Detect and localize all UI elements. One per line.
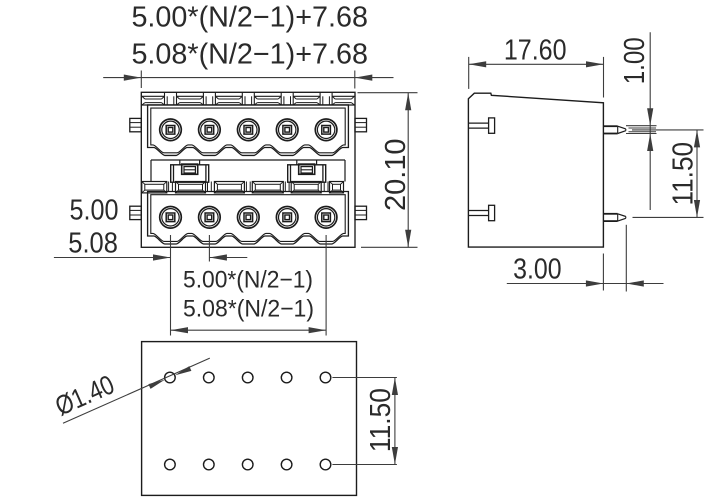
pitch label 5.00 <box>70 194 119 226</box>
svg-text:5.00: 5.00 <box>70 194 119 226</box>
pcb layout rectangle <box>142 342 357 496</box>
bevel panel 1 <box>142 182 167 193</box>
side view body outline <box>468 93 603 247</box>
screw terminal A2 (top row) <box>199 119 221 141</box>
pin pitch dimension line <box>54 235 326 336</box>
bevel panel 6 <box>330 182 344 193</box>
solder pin upper <box>603 126 625 133</box>
svg-text:5.00*(N/2−1)+7.68: 5.00*(N/2−1)+7.68 <box>131 1 368 33</box>
dimension 1.00 <box>619 32 656 210</box>
side view mounting tab upper <box>468 118 494 133</box>
left mounting tab upper <box>130 118 142 131</box>
screw terminal A3 (top row) <box>238 119 260 141</box>
bevel panel 5 <box>291 182 321 193</box>
screw terminal B2 (bottom row) <box>199 207 221 229</box>
pcb hole bottom row 3 <box>242 459 253 470</box>
bevel panel 4 <box>252 182 283 193</box>
front view outer housing box <box>141 92 355 247</box>
svg-text:5.08: 5.08 <box>68 227 118 259</box>
svg-text:5.00*(N/2−1): 5.00*(N/2−1) <box>183 267 313 294</box>
height dimension 20.10 <box>358 93 418 248</box>
pcb hole bottom row 4 <box>281 459 292 470</box>
dimension 17.60 <box>469 34 604 97</box>
dimension text 5.08*(N/2-1)+7.68 <box>131 38 368 70</box>
pcb hole bottom row 1 <box>165 459 176 470</box>
svg-text:11.50: 11.50 <box>668 142 700 206</box>
pcb hole top row 3 <box>242 372 253 383</box>
screw terminal A1 (top row) <box>160 119 182 141</box>
lower housing outline with scalloped bottom <box>148 192 349 245</box>
row span dimension line <box>171 327 327 333</box>
overall width dimension line <box>103 71 393 89</box>
bevel panel 2 <box>176 182 206 193</box>
pcb hole top row 2 <box>204 372 215 383</box>
hole diameter leader <box>51 358 210 423</box>
svg-text:1.00: 1.00 <box>619 37 651 84</box>
slot lines between bevel panels <box>169 182 328 192</box>
pcb hole top row 4 <box>281 372 292 383</box>
pcb hole top row 1 <box>165 372 176 383</box>
dimension 11.50 side view <box>632 130 704 218</box>
svg-text:3.00: 3.00 <box>513 254 562 286</box>
upper housing outline with scalloped bottom <box>148 105 349 155</box>
right mounting tab upper <box>355 118 367 131</box>
pitch label 5.08 <box>68 227 118 259</box>
dimension 3.00 <box>507 225 664 292</box>
screw terminal B4 (bottom row) <box>276 207 298 229</box>
svg-text:17.60: 17.60 <box>504 34 567 66</box>
dimension text 5.08*(N/2-1) <box>183 295 314 322</box>
left mounting tab lower <box>130 206 142 219</box>
screw terminal B3 (bottom row) <box>238 207 260 229</box>
middle band between rows <box>151 160 345 182</box>
screw terminal B5 (bottom row) <box>315 207 337 229</box>
screw terminal B1 (bottom row) <box>160 207 182 229</box>
bevel panel 3 <box>214 182 244 193</box>
svg-text:11.50: 11.50 <box>365 388 397 452</box>
front view top strip with slots <box>141 92 355 105</box>
right mounting tab lower <box>355 206 367 219</box>
latch clip 1 <box>171 160 209 182</box>
pcb hole bottom row 5 <box>320 459 331 470</box>
svg-text:20.10: 20.10 <box>380 138 412 211</box>
screw terminal A4 (top row) <box>276 119 298 141</box>
latch clip 2 <box>288 160 326 182</box>
svg-text:5.08*(N/2−1)+7.68: 5.08*(N/2−1)+7.68 <box>131 38 368 70</box>
pcb hole bottom row 2 <box>204 459 215 470</box>
svg-text:5.08*(N/2−1): 5.08*(N/2−1) <box>183 295 314 322</box>
solder pin lower <box>603 214 625 221</box>
dimension 11.50 pcb <box>332 378 398 465</box>
dimension text 5.00*(N/2-1) <box>183 267 313 294</box>
side view mounting tab lower <box>468 205 494 220</box>
pcb hole top row 5 <box>320 372 331 383</box>
dimension text 5.00*(N/2-1)+7.68 <box>131 1 368 33</box>
screw terminal A5 (top row) <box>315 119 337 141</box>
